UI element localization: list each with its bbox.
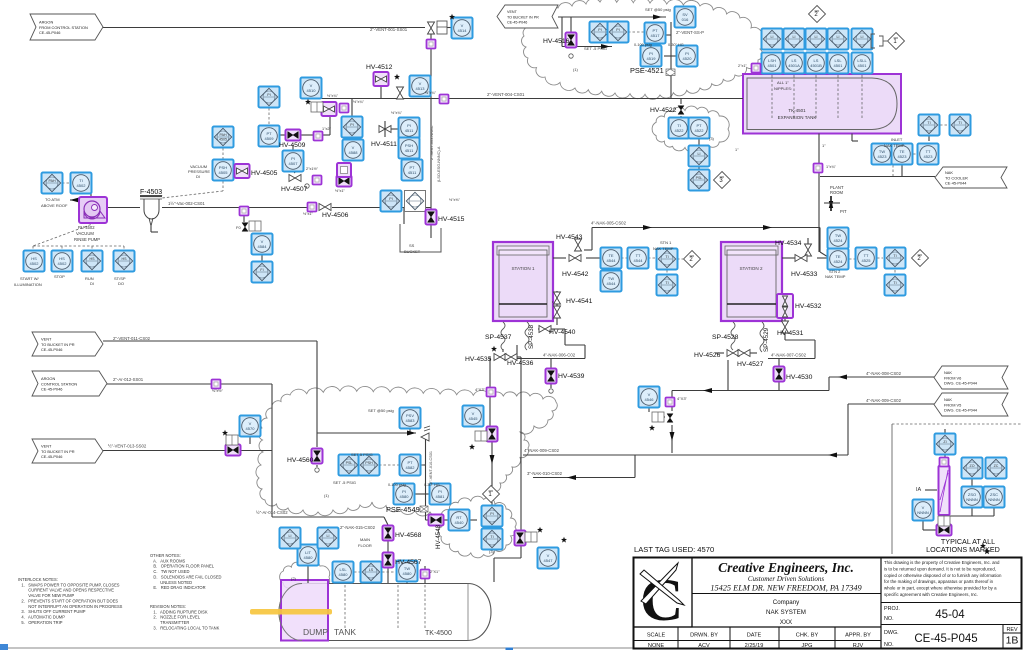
svg-text:4520: 4520 [683, 56, 693, 61]
svg-text:NAK TEMP: NAK TEMP [825, 274, 846, 279]
svg-text:APPR. BY: APPR. BY [845, 632, 871, 638]
svg-text:½"x¾": ½"x¾" [391, 111, 403, 115]
svg-text:TO BUCKET IN PR: TO BUCKET IN PR [41, 449, 75, 454]
svg-text:REV: REV [1006, 627, 1017, 633]
svg-text:1": 1" [822, 143, 826, 148]
svg-text:F0: F0 [236, 225, 241, 230]
svg-text:4. AUTOMATIC DUMP: 4. AUTOMATIC DUMP [18, 614, 65, 619]
svg-text:F-4503: F-4503 [140, 189, 162, 196]
svg-text:HV-4535: HV-4535 [465, 356, 492, 363]
svg-text:PSE-4549: PSE-4549 [386, 505, 420, 514]
svg-text:SET -5 PSIG: SET -5 PSIG [584, 46, 607, 51]
svg-text:NAK: NAK [944, 397, 952, 402]
svg-text:UNLESS NOTED: UNLESS NOTED [150, 580, 192, 585]
svg-text:2"x1½": 2"x1½" [306, 167, 319, 171]
svg-text:D. SOLENOIDS ARE FAIL CLOSED: D. SOLENOIDS ARE FAIL CLOSED [150, 574, 222, 579]
svg-text:HV-4530: HV-4530 [786, 374, 813, 381]
svg-text:4580: 4580 [339, 572, 349, 577]
svg-text:EXPANSION TANK: EXPANSION TANK [778, 115, 817, 120]
svg-text:NO.: NO. [884, 616, 894, 622]
svg-text:1½"-Vac-002-CS01: 1½"-Vac-002-CS01 [168, 201, 205, 206]
svg-text:LI: LI [771, 35, 774, 39]
svg-text:(2): (2) [291, 576, 297, 581]
svg-text:Creative Engineers, Inc.: Creative Engineers, Inc. [718, 560, 854, 575]
svg-text:4"X3": 4"X3" [475, 387, 486, 392]
svg-text:2"x1": 2"x1" [738, 64, 747, 68]
svg-text:SET @50 psig: SET @50 psig [368, 408, 394, 413]
svg-text:SET 5 PSIG: SET 5 PSIG [351, 452, 373, 457]
svg-text:OTHER NOTES:: OTHER NOTES: [150, 553, 181, 558]
svg-text:SCALE: SCALE [647, 632, 666, 638]
svg-text:4511: 4511 [405, 148, 414, 153]
svg-text:HV-4560: HV-4560 [287, 457, 314, 464]
svg-text:HV-4567: HV-4567 [395, 559, 422, 566]
svg-text:PI: PI [490, 512, 493, 516]
svg-text:FROM V5: FROM V5 [944, 402, 961, 407]
svg-text:HV-4534: HV-4534 [775, 240, 802, 247]
svg-text:0-100 psig: 0-100 psig [388, 483, 406, 487]
svg-text:½"-Ar-014-CS02: ½"-Ar-014-CS02 [256, 510, 288, 515]
svg-text:TO COOLER: TO COOLER [945, 175, 968, 180]
svg-text:4501B: 4501B [810, 63, 822, 68]
svg-text:4"-NAK-006-C02: 4"-NAK-006-C02 [543, 353, 576, 358]
svg-text:4588: 4588 [349, 150, 359, 155]
svg-text:4501A: 4501A [788, 63, 800, 68]
svg-text:for the making of drawings, ap: for the making of drawings, apparatus or… [884, 579, 994, 584]
svg-text:HV-4543: HV-4543 [556, 234, 583, 241]
svg-text:ACV: ACV [698, 643, 710, 649]
svg-text:15425 ELM DR. NEW FREEDOM, PA: 15425 ELM DR. NEW FREEDOM, PA 17349 [710, 584, 862, 593]
svg-text:PI: PI [350, 123, 353, 127]
svg-text:TI: TI [665, 281, 668, 285]
svg-text:B. OPERATION FLOOR PANEL: B. OPERATION FLOOR PANEL [150, 564, 215, 569]
svg-text:CE-45-P044: CE-45-P044 [945, 181, 967, 186]
svg-text:(LSO-ESG-NNNC)-A: (LSO-ESG-NNNC)-A [437, 146, 441, 182]
svg-text:4"-NAK-008-CS02: 4"-NAK-008-CS02 [866, 371, 902, 376]
svg-text:0-30" HG: 0-30" HG [668, 43, 684, 47]
svg-text:ALL 1": ALL 1" [777, 80, 789, 85]
svg-text:4522: 4522 [695, 128, 705, 133]
svg-text:LAST TAG USED: 4570: LAST TAG USED: 4570 [634, 545, 714, 554]
svg-text:4522: 4522 [675, 128, 685, 133]
svg-text:(1): (1) [573, 67, 579, 72]
svg-text:NAK: NAK [945, 170, 953, 175]
svg-text:2"-VENT-004-CS01: 2"-VENT-004-CS01 [487, 92, 525, 97]
svg-text:4505: 4505 [219, 170, 229, 175]
svg-text:4580: 4580 [304, 555, 314, 560]
svg-text:A. AUX ROOMS: A. AUX ROOMS [150, 558, 186, 563]
svg-text:NNNN: NNNN [988, 497, 1000, 502]
svg-text:DWG. CE-45-P044: DWG. CE-45-P044 [944, 381, 978, 386]
svg-text:PAH: PAH [219, 133, 227, 137]
svg-text:½"x¾": ½"x¾" [353, 100, 365, 104]
svg-text:TO BUCKET IN PR: TO BUCKET IN PR [41, 342, 75, 347]
svg-text:ARGON: ARGON [41, 376, 55, 381]
svg-text:LI: LI [861, 35, 864, 39]
svg-text:PI: PI [598, 28, 601, 32]
svg-text:LOCATIONS MARKED: LOCATIONS MARKED [926, 545, 1000, 554]
svg-text:4584: 4584 [258, 244, 268, 249]
svg-text:HV-4515: HV-4515 [438, 216, 465, 223]
svg-text:½"x1": ½"x1" [303, 212, 314, 216]
svg-text:FI: FI [260, 268, 263, 272]
svg-text:1"x2": 1"x2" [322, 127, 331, 131]
svg-text:START W/: START W/ [20, 276, 40, 281]
svg-text:PI: PI [267, 93, 270, 97]
svg-text:016: 016 [682, 17, 689, 22]
svg-text:ILLUMINATION: ILLUMINATION [14, 282, 42, 287]
svg-text:SP-4537: SP-4537 [485, 334, 512, 341]
svg-text:2"-VENT-003-NNNC: 2"-VENT-003-NNNC [430, 125, 434, 160]
svg-text:3. SHUTS OFF CURRENT PUMP: 3. SHUTS OFF CURRENT PUMP [18, 609, 86, 614]
svg-text:4502: 4502 [30, 261, 40, 266]
svg-text:NAK SYSTEM: NAK SYSTEM [766, 609, 806, 616]
svg-text:½"x¾": ½"x¾" [327, 94, 339, 98]
svg-text:STATION 1: STATION 1 [511, 266, 535, 271]
svg-text:4510: 4510 [307, 88, 317, 93]
svg-text:NAK: NAK [944, 370, 952, 375]
svg-text:4580: 4580 [403, 571, 413, 576]
svg-text:DI: DI [196, 174, 200, 179]
svg-text:NNNN: NNNN [966, 497, 978, 502]
svg-text:4519: 4519 [647, 56, 657, 61]
svg-text:CE-45-P046: CE-45-P046 [41, 347, 62, 352]
svg-text:4525: 4525 [862, 258, 872, 263]
svg-text:2"-VENT-001-SS01: 2"-VENT-001-SS01 [370, 27, 408, 32]
svg-text:LS: LS [369, 568, 374, 572]
svg-text:2"-VENT-SS-P: 2"-VENT-SS-P [676, 30, 704, 35]
svg-text:HV-4526: HV-4526 [694, 352, 721, 359]
svg-text:4517: 4517 [651, 33, 661, 38]
svg-text:HS: HS [90, 257, 96, 261]
svg-text:TK-4500: TK-4500 [425, 630, 452, 637]
svg-text:ROOM: ROOM [830, 190, 844, 195]
svg-text:2"-Ar-012-SS01: 2"-Ar-012-SS01 [113, 377, 144, 382]
svg-text:IA: IA [916, 487, 922, 493]
svg-text:SP-4538: SP-4538 [528, 324, 535, 349]
svg-text:HV-4540: HV-4540 [549, 329, 576, 336]
svg-text:4505: 4505 [219, 138, 227, 142]
svg-text:2"-VENT-010-CS01: 2"-VENT-010-CS01 [429, 451, 433, 484]
svg-text:HV-4541: HV-4541 [566, 298, 593, 305]
svg-text:LI: LI [793, 35, 796, 39]
svg-text:4523: 4523 [924, 154, 934, 159]
svg-text:HV-4505: HV-4505 [251, 170, 278, 177]
svg-text:1B: 1B [1006, 635, 1019, 647]
svg-text:ZC: ZC [994, 464, 999, 468]
svg-text:DUMP: DUMP [303, 627, 328, 637]
svg-text:REVISION NOTES:: REVISION NOTES: [150, 604, 186, 609]
svg-text:3"-NAK-010-CS02: 3"-NAK-010-CS02 [527, 471, 563, 476]
svg-text:CURRENT VALVE AND OPENS RESPEC: CURRENT VALVE AND OPENS RESPECTIVE [18, 588, 114, 593]
svg-text:DATE: DATE [747, 632, 762, 638]
svg-text:Company: Company [773, 599, 800, 606]
svg-text:specific agreement with Creati: specific agreement with Creative Enginee… [884, 592, 978, 597]
svg-text:(1): (1) [324, 493, 330, 498]
svg-text:4502: 4502 [58, 261, 68, 266]
svg-text:4"X3": 4"X3" [677, 396, 688, 401]
svg-text:LI: LI [327, 534, 330, 538]
svg-text:JPG: JPG [802, 643, 813, 649]
svg-text:LI: LI [698, 152, 701, 156]
svg-text:HV-4531: HV-4531 [777, 330, 804, 337]
svg-text:VACUUM: VACUUM [76, 231, 94, 236]
svg-text:4580: 4580 [400, 494, 410, 499]
svg-text:DI: DI [90, 281, 94, 286]
svg-text:NO.: NO. [884, 642, 894, 648]
svg-text:0-30" HG: 0-30" HG [424, 483, 440, 487]
svg-text:CE-45-P046: CE-45-P046 [39, 30, 60, 35]
svg-text:0-100 psig: 0-100 psig [634, 43, 652, 47]
svg-text:HV-4536: HV-4536 [507, 360, 534, 367]
svg-text:½"x⅜": ½"x⅜" [449, 198, 461, 202]
svg-text:NOT INTERRUPT AN OPERATION IN: NOT INTERRUPT AN OPERATION IN PROGRESS [18, 604, 123, 609]
svg-text:NNNN: NNNN [917, 510, 929, 515]
svg-text:2"-VENT-011-CS02: 2"-VENT-011-CS02 [113, 336, 151, 341]
svg-text:FLOOR: FLOOR [358, 543, 372, 548]
svg-text:4544: 4544 [607, 258, 617, 263]
svg-text:1. ADDING RUPTURE DISK: 1. ADDING RUPTURE DISK [150, 609, 208, 614]
svg-text:CE-45-P046: CE-45-P046 [41, 387, 62, 392]
svg-text:TO ATM: TO ATM [45, 197, 60, 202]
svg-text:1"x¾": 1"x¾" [826, 165, 837, 169]
svg-text:4581: 4581 [436, 494, 446, 499]
svg-text:VENT: VENT [507, 10, 518, 14]
svg-text:TI: TI [958, 121, 961, 125]
svg-text:PSL: PSL [696, 176, 703, 180]
svg-text:4507: 4507 [289, 161, 299, 166]
svg-text:HV-4539: HV-4539 [558, 373, 585, 380]
svg-text:STN 1: STN 1 [660, 240, 672, 245]
svg-text:CONTROL STATION: CONTROL STATION [41, 381, 77, 386]
svg-text:4583: 4583 [406, 418, 416, 423]
svg-text:NONE: NONE [648, 643, 664, 649]
svg-text:HV-4511: HV-4511 [371, 141, 397, 148]
svg-text:4509: 4509 [265, 136, 275, 141]
svg-text:PU-4502: PU-4502 [78, 225, 95, 230]
svg-text:HV-4542: HV-4542 [562, 271, 589, 278]
svg-text:TI: TI [893, 281, 896, 285]
svg-text:ABOVE ROOF: ABOVE ROOF [41, 203, 68, 208]
svg-text:HS: HS [122, 257, 128, 261]
svg-text:4501: 4501 [858, 63, 868, 68]
svg-text:2"-NAK-015-CS02: 2"-NAK-015-CS02 [340, 525, 376, 530]
svg-text:VALVE FOR NEW PUMP: VALVE FOR NEW PUMP [18, 593, 75, 598]
svg-text:2/25/19: 2/25/19 [745, 643, 764, 649]
svg-text:4511: 4511 [408, 170, 417, 175]
svg-text:CHK. BY: CHK. BY [796, 632, 819, 638]
svg-text:HV-4509: HV-4509 [279, 142, 306, 149]
svg-text:PI: PI [616, 28, 619, 32]
svg-text:TI: TI [665, 255, 668, 259]
svg-text:4544: 4544 [607, 281, 617, 286]
svg-text:RJV: RJV [853, 643, 864, 649]
svg-text:2"X1": 2"X1" [430, 570, 440, 574]
svg-text:4524: 4524 [834, 238, 844, 243]
svg-text:is to be returned upon demand.: is to be returned upon demand. It is not… [884, 566, 996, 571]
svg-text:BUCKET: BUCKET [404, 249, 421, 254]
svg-text:PSL: PSL [346, 461, 353, 465]
svg-text:4"-NAK-009-CS02: 4"-NAK-009-CS02 [524, 448, 560, 453]
svg-text:5. OPERATION TRIP: 5. OPERATION TRIP [18, 620, 63, 625]
svg-text:2. PREVENTS START OF OPERATI: 2. PREVENTS START OF OPERATION BUT DOES [18, 598, 118, 603]
svg-text:FROM CONTROL STATION: FROM CONTROL STATION [39, 25, 88, 30]
svg-text:DO: DO [118, 281, 124, 286]
svg-text:TI: TI [893, 254, 896, 258]
svg-text:HV-4548: HV-4548 [435, 524, 442, 549]
svg-text:DWG.: DWG. [884, 630, 899, 636]
svg-text:CE-45-P046: CE-45-P046 [507, 21, 527, 25]
svg-text:TO BUCKET IN PR: TO BUCKET IN PR [507, 15, 539, 19]
svg-text:This drawing is the property o: This drawing is the property of Creative… [884, 560, 1000, 565]
svg-text:4513: 4513 [416, 86, 426, 91]
svg-text:HV-4527: HV-4527 [737, 361, 764, 368]
svg-text:4"-NAK-007-CS02: 4"-NAK-007-CS02 [771, 353, 807, 358]
svg-text:PIT: PIT [840, 209, 847, 214]
svg-text:4511: 4511 [405, 128, 414, 133]
svg-text:4501: 4501 [768, 63, 778, 68]
svg-text:HV-4522: HV-4522 [650, 107, 677, 114]
svg-text:whole or in part, except where: whole or in part, except where otherwise… [884, 586, 997, 591]
svg-text:TRANSMITTER: TRANSMITTER [150, 620, 189, 625]
svg-text:STOP: STOP [54, 274, 65, 279]
svg-text:SS: SS [409, 243, 415, 248]
svg-text:PI: PI [389, 197, 392, 201]
svg-text:NIPPLES:: NIPPLES: [774, 86, 792, 91]
svg-text:RINSE PUMP: RINSE PUMP [74, 237, 100, 242]
svg-text:PAH: PAH [48, 179, 56, 183]
svg-text:C. TW NOT USED: C. TW NOT USED [150, 569, 189, 574]
svg-text:HV-4512: HV-4512 [366, 64, 393, 71]
svg-text:45-04: 45-04 [935, 609, 965, 621]
svg-text:TANK: TANK [334, 627, 356, 637]
svg-text:INTERLOCK NOTES:: INTERLOCK NOTES: [18, 577, 58, 582]
svg-text:NAK TEMP: NAK TEMP [884, 143, 905, 148]
svg-text:SET -5 PSIG: SET -5 PSIG [333, 480, 356, 485]
svg-text:VENT: VENT [41, 336, 52, 341]
svg-text:(3): (3) [709, 136, 715, 141]
svg-text:4"-NAK-005-CS02: 4"-NAK-005-CS02 [591, 221, 627, 226]
svg-text:XXX: XXX [780, 619, 792, 626]
svg-text:HV-4533: HV-4533 [791, 271, 818, 278]
svg-text:4"-NAK-009-CS02: 4"-NAK-009-CS02 [866, 398, 902, 403]
svg-text:PSH: PSH [365, 461, 373, 465]
svg-text:FROM V6: FROM V6 [944, 375, 961, 380]
svg-text:4570: 4570 [246, 426, 256, 431]
svg-text:TK-4501: TK-4501 [788, 108, 806, 113]
svg-text:HV-4506: HV-4506 [322, 212, 349, 219]
svg-text:4544: 4544 [634, 258, 644, 263]
svg-text:MAIN: MAIN [360, 537, 370, 542]
svg-text:ZO: ZO [970, 464, 975, 468]
svg-text:HV-4568: HV-4568 [395, 532, 422, 539]
svg-text:4502: 4502 [77, 183, 87, 188]
svg-text:HV-4516: HV-4516 [543, 38, 570, 45]
svg-text:STATION 2: STATION 2 [739, 266, 763, 271]
svg-text:HV-4532: HV-4532 [795, 303, 822, 310]
svg-text:4523: 4523 [878, 154, 888, 159]
svg-text:½"x1": ½"x1" [335, 189, 346, 193]
svg-text:½"x¾": ½"x¾" [425, 91, 437, 95]
svg-text:⅜"x½": ⅜"x½" [212, 389, 224, 393]
svg-text:Customer Driven Solutions: Customer Driven Solutions [748, 575, 824, 583]
svg-text:4524: 4524 [834, 259, 844, 264]
svg-text:LI: LI [289, 534, 292, 538]
svg-text:E. RED DRAG INDICATOR: E. RED DRAG INDICATOR [150, 585, 206, 590]
svg-text:INLET: INLET [891, 137, 903, 142]
svg-text:4582: 4582 [406, 465, 416, 470]
svg-text:4501: 4501 [834, 63, 844, 68]
svg-text:LI: LI [837, 35, 840, 39]
svg-text:4545: 4545 [469, 416, 479, 421]
svg-text:TI: TI [927, 121, 930, 125]
svg-text:4523: 4523 [898, 154, 908, 159]
svg-text:SP-4528: SP-4528 [712, 334, 739, 341]
svg-text:HV-4507: HV-4507 [281, 186, 308, 193]
svg-text:4514: 4514 [458, 28, 468, 33]
svg-text:4546: 4546 [645, 397, 655, 402]
svg-text:ZI: ZI [943, 440, 946, 444]
svg-text:½"-VENT-013-SS02: ½"-VENT-013-SS02 [108, 444, 147, 449]
svg-text:VENT: VENT [41, 443, 52, 448]
svg-text:(3): (3) [489, 549, 495, 554]
svg-text:PROJ.: PROJ. [884, 606, 900, 612]
svg-text:TI: TI [490, 535, 493, 539]
svg-text:PSE-4521: PSE-4521 [630, 66, 664, 75]
svg-text:2. NOZZLE FOR LEVEL: 2. NOZZLE FOR LEVEL [150, 615, 201, 620]
svg-text:SP-4529: SP-4529 [763, 327, 770, 352]
svg-text:4547: 4547 [544, 558, 554, 563]
svg-text:CE-45-P045: CE-45-P045 [914, 633, 977, 645]
svg-text:3. RELOCATING LOCAL TO TANK: 3. RELOCATING LOCAL TO TANK [150, 625, 220, 630]
svg-text:DWG. CE-45-P044: DWG. CE-45-P044 [944, 408, 978, 413]
svg-text:NAK TEMP: NAK TEMP [653, 246, 674, 251]
svg-text:SET @50 psig: SET @50 psig [645, 7, 671, 12]
svg-text:ARGON: ARGON [39, 19, 53, 24]
svg-text:CE-45-P046: CE-45-P046 [41, 454, 62, 459]
svg-text:1. SWAPS POWER TO OPPOSITE P: 1. SWAPS POWER TO OPPOSITE PUMP, CLOSES [18, 582, 120, 587]
svg-text:copied or otherwise disposed o: copied or otherwise disposed of or to fu… [884, 573, 1002, 578]
svg-text:DRWN. BY: DRWN. BY [690, 632, 718, 638]
svg-text:4540: 4540 [455, 520, 465, 525]
svg-text:LI: LI [815, 35, 818, 39]
